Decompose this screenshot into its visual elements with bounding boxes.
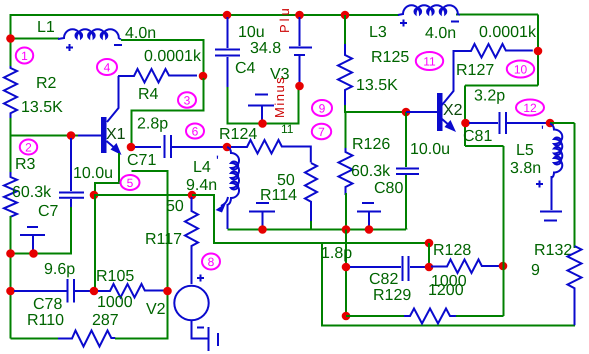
junction R128 right bbox=[499, 262, 508, 271]
junction C81 right bbox=[546, 119, 555, 128]
battery small under C4 minus mark bbox=[255, 94, 268, 96]
svg-text:13.5K: 13.5K bbox=[21, 99, 63, 116]
ground node junction battery bbox=[29, 249, 38, 258]
svg-text:9.4n: 9.4n bbox=[186, 177, 217, 194]
svg-text:L3: L3 bbox=[369, 24, 387, 41]
capacitor C4 stem bottom bbox=[227, 57, 229, 89]
svg-text:L4: L4 bbox=[193, 159, 211, 176]
resistor R126 bbox=[339, 148, 353, 195]
wire L5 node to R132 bbox=[550, 122, 575, 124]
svg-text:34.8: 34.8 bbox=[250, 40, 281, 57]
svg-text:C80: C80 bbox=[374, 180, 403, 197]
battery under C80 stem bbox=[368, 213, 370, 228]
V2 plus mark bbox=[197, 275, 204, 282]
svg-text:60.3k: 60.3k bbox=[12, 184, 52, 201]
node marker 8 bbox=[202, 254, 220, 270]
V2 battery long plate bbox=[208, 327, 210, 351]
inductor L4 bbox=[227, 147, 239, 205]
svg-text:C81: C81 bbox=[463, 128, 492, 145]
capacitor C78 bbox=[14, 279, 92, 303]
svg-text:X1: X1 bbox=[106, 126, 126, 143]
wire left rail lower bbox=[10, 216, 12, 339]
junction node R128 left top bbox=[425, 239, 434, 248]
svg-text:R125: R125 bbox=[371, 49, 409, 66]
capacitor C82 bbox=[350, 256, 427, 281]
svg-text:287: 287 bbox=[92, 312, 119, 329]
wire mid rail y229 bbox=[228, 229, 407, 231]
wire R129 right to feedback bbox=[456, 315, 504, 317]
svg-text:R117: R117 bbox=[145, 231, 182, 248]
svg-text:R129: R129 bbox=[373, 287, 411, 304]
node junction C78 left bbox=[6, 287, 15, 296]
transistor X2 emitter arrowhead bbox=[445, 120, 457, 132]
capacitor C71 bbox=[135, 135, 224, 158]
wire R126 bottom bbox=[345, 193, 347, 230]
wire corner C80 to rail bbox=[406, 229, 408, 230]
resistor R110 bbox=[58, 331, 115, 347]
svg-text:R110: R110 bbox=[27, 312, 64, 329]
transistor X1 bar bbox=[101, 117, 107, 153]
svg-text:13.5K: 13.5K bbox=[356, 77, 398, 94]
capacitor C7 bbox=[59, 193, 84, 198]
resistor R124 bbox=[231, 140, 311, 163]
wire C80 stem top bbox=[405, 112, 407, 167]
svg-text:5: 5 bbox=[127, 176, 134, 190]
V2 battery minus mark bbox=[197, 327, 204, 329]
svg-text:10: 10 bbox=[514, 63, 528, 77]
node junction top L3 left bbox=[341, 11, 350, 20]
wire C7 to ground rail bbox=[11, 207, 72, 254]
wire emitter to node below bbox=[95, 153, 119, 195]
wire from L1 to R4 box bbox=[121, 40, 204, 111]
transistor X1 base wire bbox=[78, 135, 101, 137]
svg-text:C82: C82 bbox=[369, 271, 398, 288]
node 5 junction at emitter bbox=[127, 143, 136, 152]
svg-text:0.0001k: 0.0001k bbox=[479, 24, 537, 41]
svg-text:6: 6 bbox=[192, 125, 199, 139]
resistor R117 bbox=[185, 197, 198, 284]
transistor X1 collector wire bbox=[107, 76, 119, 122]
svg-text:2: 2 bbox=[25, 141, 32, 155]
capacitor C81 bbox=[469, 112, 548, 134]
wire feedback horizontal y85 bbox=[465, 85, 538, 87]
node marker 2 bbox=[20, 140, 37, 155]
svg-text:9: 9 bbox=[531, 262, 540, 279]
svg-text:1.8p: 1.8p bbox=[321, 245, 352, 262]
battery mid stem bbox=[262, 213, 264, 228]
resistor R127 bbox=[469, 44, 533, 58]
battery V3 stem top bbox=[299, 17, 301, 46]
svg-text:R127: R127 bbox=[456, 62, 494, 79]
L3 minus mark bbox=[451, 21, 459, 23]
wire C80 stem bottom bbox=[405, 175, 407, 230]
svg-text:C78: C78 bbox=[33, 296, 62, 313]
wire feedback vertical x465 bbox=[464, 86, 466, 147]
battery under L5 plate bbox=[540, 211, 562, 213]
svg-text:3: 3 bbox=[184, 94, 191, 108]
wire mid vertical x346 bbox=[345, 230, 347, 317]
svg-text:4.0n: 4.0n bbox=[425, 25, 456, 42]
wire bottom left rail bbox=[11, 338, 61, 340]
svg-text:V2: V2 bbox=[146, 301, 166, 318]
node junction V3 bottom bbox=[295, 82, 304, 91]
svg-text:11: 11 bbox=[423, 55, 436, 69]
wire node1 to L1 bbox=[11, 38, 60, 40]
svg-text:R124: R124 bbox=[219, 126, 257, 143]
node marker 11 bbox=[416, 52, 443, 70]
svg-text:': ' bbox=[216, 153, 219, 170]
wire left rail to R3 bbox=[10, 136, 12, 177]
svg-text:Minus: Minus bbox=[272, 76, 287, 118]
svg-text:9.6p: 9.6p bbox=[44, 261, 75, 278]
transistor X1 emitter arrowhead bbox=[111, 143, 122, 155]
wire R129 bottom bbox=[346, 315, 406, 317]
svg-text:L1: L1 bbox=[37, 19, 55, 36]
svg-text:R126: R126 bbox=[352, 136, 390, 153]
svg-text:': ' bbox=[541, 123, 544, 140]
L3 plus mark bbox=[400, 20, 407, 27]
svg-text:10.0u: 10.0u bbox=[410, 141, 450, 158]
node marker 1 bbox=[16, 48, 33, 64]
wire to bottom right rail bbox=[322, 243, 575, 326]
wire R125 top stub bbox=[344, 15, 346, 46]
node junction C71 right bbox=[223, 143, 232, 152]
wire feedback horizontal y146 bbox=[465, 145, 504, 147]
ground node junction left bbox=[6, 249, 15, 258]
node junction R105 right / V2 bbox=[163, 287, 172, 296]
wire R125 down to R126 bbox=[345, 112, 347, 150]
node junction X2 base bbox=[402, 108, 411, 117]
resistor R4 bbox=[118, 69, 197, 83]
svg-text:1: 1 bbox=[21, 49, 28, 63]
wire R110 to V2 branch bbox=[115, 171, 168, 339]
resistor R125 bbox=[338, 44, 352, 107]
transistor X2 collector bbox=[442, 51, 471, 105]
capacitor C80 bbox=[396, 169, 419, 175]
junction battery under C4 bbox=[258, 119, 267, 128]
node marker 3 bbox=[178, 92, 196, 107]
svg-text:R2: R2 bbox=[36, 75, 57, 92]
node 1 bbox=[6, 34, 15, 43]
resistor R129 bbox=[404, 309, 458, 324]
capacitor C7 stem bottom bbox=[70, 199, 72, 208]
L1 minus mark bbox=[114, 44, 122, 46]
wire R127 right drop bbox=[537, 51, 539, 86]
source V2 circle bbox=[174, 286, 208, 320]
transistor X2 bar bbox=[437, 93, 443, 131]
inductor L1 bbox=[58, 29, 121, 39]
junction R129 left bbox=[342, 312, 351, 321]
svg-text:1000: 1000 bbox=[97, 294, 133, 311]
svg-text:10u: 10u bbox=[238, 24, 265, 41]
wire R128 left drop bbox=[428, 243, 430, 267]
svg-text:7: 7 bbox=[318, 125, 325, 139]
wire node8 box bbox=[192, 195, 429, 243]
node marker 10 bbox=[507, 61, 534, 78]
svg-text:R114: R114 bbox=[260, 187, 297, 204]
node junction top C4 bbox=[223, 11, 232, 20]
svg-text:R3: R3 bbox=[15, 156, 36, 173]
battery small under C4 plate bbox=[248, 105, 274, 107]
svg-text:R4: R4 bbox=[138, 86, 159, 103]
node marker 6 bbox=[186, 124, 204, 139]
battery under C80 minus mark bbox=[362, 202, 374, 204]
wire top rail right segment bbox=[456, 14, 538, 16]
svg-text:3.8n: 3.8n bbox=[510, 160, 541, 177]
svg-text:12: 12 bbox=[523, 101, 537, 115]
inductor L3 bbox=[398, 5, 460, 15]
svg-text:R105: R105 bbox=[96, 268, 134, 285]
wire R114 bottom to rail bbox=[311, 221, 316, 230]
capacitor C4 bbox=[215, 50, 240, 56]
svg-text:C7: C7 bbox=[38, 203, 59, 220]
wire R2 bottom to base and down bbox=[11, 118, 79, 136]
battery V3 stem bottom bbox=[299, 56, 301, 84]
battery near C7 plate bbox=[20, 234, 45, 236]
L5 plus mark bbox=[536, 181, 543, 188]
svg-text:Plu: Plu bbox=[277, 5, 292, 33]
battery V3 short plate bbox=[294, 54, 305, 56]
battery under C80 plate bbox=[357, 211, 381, 213]
wire node5 horizontal bbox=[94, 194, 192, 196]
resistor R2 bbox=[4, 66, 17, 120]
wire R125 to X2 base bbox=[345, 105, 406, 112]
resistor R105 bbox=[98, 284, 167, 298]
svg-text:8: 8 bbox=[208, 255, 215, 269]
L1 plus mark bbox=[66, 44, 73, 51]
L4 arrow hook bbox=[221, 197, 228, 206]
svg-text:1200: 1200 bbox=[428, 282, 464, 299]
junction C81 left bbox=[461, 119, 470, 128]
battery under L5 minus mark bbox=[544, 220, 557, 222]
battery V3 long plate bbox=[289, 47, 312, 49]
junction R127 right bbox=[534, 47, 543, 56]
V2 battery stem bbox=[192, 321, 209, 339]
node marker 7 bbox=[312, 124, 331, 139]
node 3 junction bbox=[199, 72, 208, 81]
resistor R132 bbox=[568, 246, 582, 325]
wire top rail bbox=[11, 15, 400, 68]
svg-text:2.8p: 2.8p bbox=[137, 116, 168, 133]
svg-text:3.2p: 3.2p bbox=[474, 88, 505, 105]
node junction R105 left bbox=[90, 287, 99, 296]
junction R126 bottom bbox=[342, 225, 351, 234]
svg-text:C4: C4 bbox=[235, 60, 256, 77]
svg-text:10.0u: 10.0u bbox=[73, 165, 113, 182]
resistor R128 bbox=[431, 260, 501, 274]
node marker 4 bbox=[97, 59, 117, 75]
svg-text:9: 9 bbox=[319, 102, 326, 116]
wire C4 ground box bbox=[228, 86, 299, 124]
transistor X1 emitter bbox=[107, 141, 118, 150]
node marker 12 bbox=[516, 100, 544, 116]
inductor L5 bbox=[550, 124, 562, 179]
node junction left of C7 wire bbox=[90, 191, 99, 200]
transistor X2 base wire bbox=[406, 111, 437, 113]
svg-text:C71: C71 bbox=[127, 152, 156, 169]
svg-text:4: 4 bbox=[104, 61, 111, 75]
L4 arrowhead bbox=[216, 203, 227, 213]
svg-text:50: 50 bbox=[166, 198, 184, 215]
junction battery under C80 bbox=[365, 225, 374, 234]
battery near C7 minus mark bbox=[27, 226, 38, 228]
wire R132 vertical bbox=[574, 123, 576, 248]
svg-text:60.3k: 60.3k bbox=[351, 163, 391, 180]
junction C82 left bbox=[342, 263, 351, 272]
wire right drop to R127 bbox=[537, 15, 539, 53]
junction battery mid bbox=[258, 225, 267, 234]
L5 stem bbox=[551, 176, 553, 210]
wire feedback box from node 3 to C71 left bbox=[132, 78, 204, 144]
capacitor C7 stem top bbox=[70, 138, 72, 191]
node junction base X1 bbox=[67, 131, 76, 140]
wire L4 bottom bbox=[227, 204, 229, 229]
svg-text:L5: L5 bbox=[516, 142, 534, 159]
svg-text:11: 11 bbox=[281, 122, 294, 136]
svg-text:X2: X2 bbox=[443, 102, 463, 119]
transistor X2 emitter bbox=[442, 119, 450, 126]
node marker 9 bbox=[312, 100, 332, 116]
wire node down C7/R105 bbox=[94, 195, 96, 291]
resistor R3 bbox=[4, 172, 17, 219]
svg-text:R128: R128 bbox=[433, 242, 471, 259]
battery small under C4 stem bbox=[261, 107, 263, 122]
node junction top V3 bbox=[295, 11, 304, 20]
node junction R117 top bbox=[188, 191, 197, 200]
resistor R114 bbox=[305, 163, 317, 222]
battery mid minus mark bbox=[256, 202, 269, 204]
V2 battery short plate bbox=[217, 333, 219, 346]
node marker 5 bbox=[121, 175, 140, 190]
battery near C7 stem bbox=[32, 236, 34, 252]
wire feedback vertical x503 bbox=[503, 146, 505, 316]
battery mid plate bbox=[249, 211, 275, 213]
junction R128 left bbox=[425, 263, 434, 272]
svg-text:0.0001k: 0.0001k bbox=[144, 48, 202, 65]
capacitor C4 stem bbox=[227, 17, 229, 48]
